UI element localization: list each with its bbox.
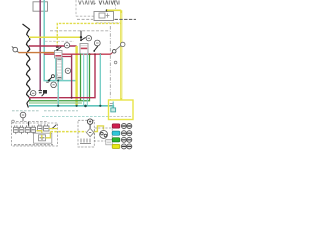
wire: red bus y54.2 xyxy=(44,53,111,55)
text row above bottom-left box xyxy=(16,121,48,123)
text under washer cluster xyxy=(78,146,95,148)
legend icons row1 xyxy=(121,124,131,129)
stem xyxy=(89,125,91,129)
wire: yellow dashed branch (ignition feed) xyxy=(57,23,121,47)
switch above F2 xyxy=(80,39,82,41)
wire label text rows lower left xyxy=(12,110,78,112)
wire: teal vertical x44 then along y80.6 xyxy=(44,0,75,81)
label circle near switch xyxy=(94,40,100,46)
legend row 1 crimson xyxy=(112,124,120,128)
wire: plum vertical x71.5 down to crimson row xyxy=(71,54,73,97)
dashed enclosure bottom-left (fuse/relay panel) xyxy=(12,123,58,146)
inner element of K1 xyxy=(99,13,105,18)
label circle B xyxy=(51,82,57,88)
ground circle G1 on harness xyxy=(30,93,32,96)
wire: teal bus y105.8 with turn down into pump box xyxy=(29,106,113,111)
fuse F1 box xyxy=(55,51,63,59)
connector C1 (top box) xyxy=(33,2,48,11)
stub from K1 to yellow feed xyxy=(106,10,108,12)
legend row 2 cyan xyxy=(112,131,120,135)
wire: green vertical x89.5 and row y100.8 xyxy=(29,54,90,101)
dashed enclosure pump xyxy=(95,128,113,141)
label circle 30 xyxy=(86,36,91,41)
dashed alignment line x57.6 xyxy=(57,74,59,106)
relay C contacts xyxy=(38,124,50,131)
switch SW1 xyxy=(94,46,98,51)
wire: yellow feed from K1 to trunk xyxy=(107,9,121,11)
wire: yellow harness feed y37 xyxy=(29,36,81,38)
off-page arrow with circle xyxy=(116,45,122,50)
contacts below xyxy=(80,139,91,144)
junction dots on teal bus xyxy=(57,105,59,107)
wire: thick yellow vertical x76.6 xyxy=(75,46,77,106)
diamond flasher xyxy=(86,128,93,136)
legend row 4 yellow xyxy=(112,144,120,148)
highlighted washer pump box (yellow) xyxy=(109,100,134,120)
pump motor M xyxy=(100,130,108,138)
wire: teal vertical x58.2 from y80.6 to bus xyxy=(57,81,59,106)
dashed enclosure right edge xyxy=(115,0,117,9)
clipped component glyphs top right (group 1) xyxy=(79,1,96,5)
label circle GS on x71.5 xyxy=(65,68,70,73)
dashed enclosure washer switch xyxy=(78,120,94,147)
wire: yellow hop to pump xyxy=(94,126,104,132)
wire: main yellow dashed run to washer cluster xyxy=(50,131,86,133)
connector blob at plum end xyxy=(43,90,47,94)
component D internals xyxy=(39,135,46,141)
clipped component glyphs top right (group 2) xyxy=(99,1,119,5)
tag under pump xyxy=(106,140,113,145)
harness wavy line (left loom boundary) xyxy=(23,24,31,108)
wire: crimson vertical x95 to row y97.7 xyxy=(29,54,95,97)
relay A contacts xyxy=(14,125,24,134)
wire: green vertical x80.5 xyxy=(80,54,82,101)
splice S1 with circle (left) xyxy=(12,46,19,52)
teal pair flanking strip xyxy=(56,58,63,81)
wire: teal pair inside green U xyxy=(84,54,88,106)
junction dots on teal y80.6 xyxy=(48,80,50,82)
connector end of plum wire xyxy=(39,91,42,93)
wire stub into panel xyxy=(28,122,30,126)
connector strip below F1 xyxy=(57,58,63,79)
splice circle C2 xyxy=(20,112,26,118)
switch SW2 near teal box xyxy=(49,77,52,80)
indicator circle icon xyxy=(87,119,92,124)
stub from junction up into label row xyxy=(80,31,82,41)
text row mid (wire labels) xyxy=(50,30,110,32)
fuse F2 box (right section) xyxy=(80,44,88,54)
junction dots on red bus xyxy=(89,53,91,55)
wire: plum battery feed vertical x40 xyxy=(39,0,41,90)
legend row 3 green xyxy=(112,138,120,142)
label circle for F1 xyxy=(64,43,69,48)
pump icon inside highlight xyxy=(112,102,114,106)
wire: yellow trunk vertical x121 xyxy=(120,10,122,100)
component D box (solid) xyxy=(34,133,52,143)
yellow link from relay C down xyxy=(37,131,42,135)
yellow links to main run xyxy=(46,132,51,138)
wire: red lower y56.5 xyxy=(55,56,72,58)
relay B coil xyxy=(25,125,35,134)
wire: light green row y103 xyxy=(29,102,82,104)
switch in panel right xyxy=(53,125,57,129)
teal hook at pump xyxy=(112,110,115,112)
dashed enclosure edges top right xyxy=(76,0,97,16)
relay box K1 top right xyxy=(94,12,114,21)
boundary dash-dot line x110 xyxy=(109,26,111,100)
red bus terminal circle xyxy=(111,52,113,54)
junction dot crimson row xyxy=(71,97,73,99)
wire: orange feed y52.6 xyxy=(19,52,55,54)
wire: teal vertical x100.3 from switch to bus xyxy=(99,54,101,106)
junction dot x84 xyxy=(80,36,82,38)
caption text row under top-right box xyxy=(77,18,93,20)
teal caption row xyxy=(42,116,108,118)
switch above F1 xyxy=(56,49,58,51)
bottom text row of panel xyxy=(14,144,53,146)
junction tick at end of dashed yellow xyxy=(56,46,59,48)
wire: crimson y46 xyxy=(29,45,77,47)
